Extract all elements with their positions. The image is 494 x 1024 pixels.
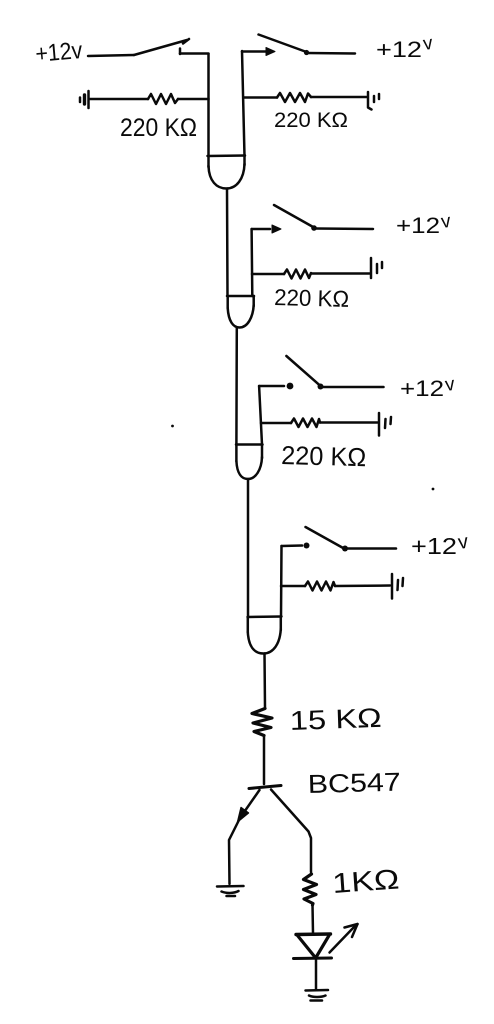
wire U1 output to gate U2 input A (226, 189, 229, 297)
ground (right of R3) (371, 258, 382, 278)
svg-text:+12: +12 (411, 533, 457, 559)
switch SW2 (242, 35, 355, 56)
AND gate U4 (248, 617, 282, 654)
AND gate U3 (236, 445, 263, 480)
resistor R3 (252, 270, 370, 279)
svg-text:v: v (457, 531, 470, 554)
resistor R4 (261, 419, 378, 428)
wire U3 output to gate U4 input A (247, 479, 250, 617)
wire SW4 corner to gate U3 input B (259, 386, 262, 445)
svg-text:+12: +12 (396, 213, 440, 238)
wire R7 to LED D1 (311, 905, 314, 934)
switch SW1 (88, 39, 209, 56)
svg-text:220 KΩ: 220 KΩ (120, 114, 197, 142)
resistor R1 (90, 94, 209, 104)
svg-text:220 KΩ: 220 KΩ (274, 284, 350, 312)
wire SW2 corner to gate U1 input B (242, 51, 245, 156)
AND gate U1 (208, 156, 246, 189)
svg-text:15 KΩ: 15 KΩ (289, 703, 382, 736)
wire SW1 to gate U1 input A (207, 54, 210, 156)
AND gate U2 (227, 296, 254, 328)
svg-text:220 KΩ: 220 KΩ (281, 440, 367, 472)
wire U2 output to gate U3 input A (235, 327, 238, 444)
wire LED to ground (315, 959, 318, 991)
wire U4 output to resistor R6 (263, 654, 266, 709)
transistor Q1 BC547 (229, 786, 311, 885)
resistor R7 1K (vertical) (304, 874, 317, 905)
resistor R6 15K (vertical) (252, 709, 272, 736)
svg-text:1KΩ: 1KΩ (331, 863, 400, 899)
ground (below LED) (306, 990, 329, 1001)
ground (left of R1) (80, 91, 89, 108)
svg-text:+12: +12 (376, 37, 422, 62)
resistor R2 (244, 93, 367, 102)
svg-text:+12: +12 (400, 376, 444, 401)
svg-text:+12v: +12v (34, 37, 83, 68)
ground (right of R4) (379, 413, 391, 436)
LED light arrow (330, 924, 358, 953)
wire R6 to base of Q1 (263, 736, 266, 785)
resistor R5 (281, 582, 390, 591)
svg-text:v: v (444, 374, 457, 396)
switch SW5 (282, 527, 397, 552)
ground (emitter of Q1) (217, 886, 244, 896)
svg-text:220 KΩ: 220 KΩ (274, 109, 348, 132)
svg-text:BC547: BC547 (307, 767, 401, 799)
svg-text:v: v (422, 33, 435, 55)
wire SW3 corner to gate U2 input B (250, 229, 253, 296)
switch SW4 (259, 356, 383, 390)
switch SW3 (252, 205, 373, 233)
svg-text:v: v (440, 211, 453, 233)
speck (432, 488, 435, 491)
LED D1 (294, 934, 332, 959)
ground (right of R2) (368, 92, 379, 110)
ground (right of R5) (392, 574, 403, 599)
speck (171, 425, 174, 428)
wire SW5 corner to gate U4 input B (280, 546, 283, 617)
